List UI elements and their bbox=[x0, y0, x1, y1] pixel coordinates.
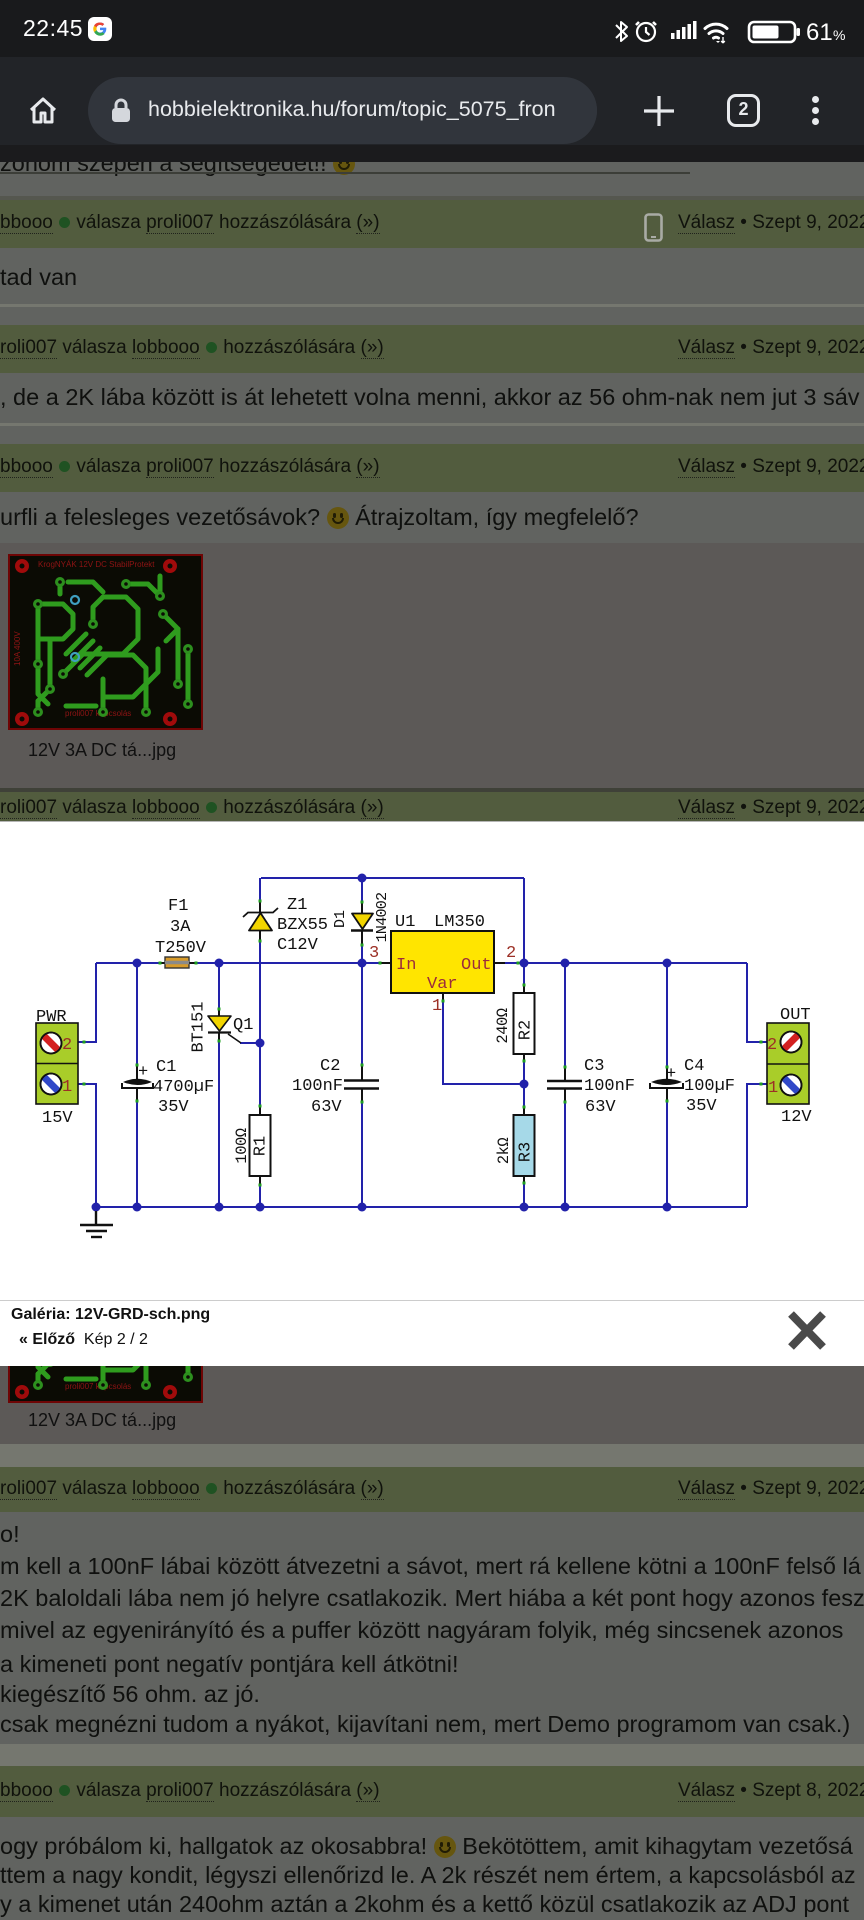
alarm clock bbox=[637, 23, 655, 41]
svg-text:12V: 12V bbox=[781, 1108, 812, 1127]
wire C2 branch bbox=[361, 963, 363, 1207]
corner drill donuts bbox=[15, 559, 29, 573]
svg-text:100µF: 100µF bbox=[684, 1077, 735, 1096]
svg-text:R1: R1 bbox=[251, 1136, 270, 1156]
svg-text:PWR: PWR bbox=[36, 1008, 67, 1027]
status icons right bbox=[610, 16, 850, 46]
lock icon bbox=[110, 97, 132, 124]
header 6 bbox=[0, 1766, 864, 1817]
resistor R1 bbox=[250, 1115, 271, 1176]
capacitor C4 plates (electrolytic) bbox=[650, 1079, 683, 1088]
PCB image bbox=[8, 554, 203, 730]
cyan pads bbox=[71, 596, 79, 604]
svg-text:Z1: Z1 bbox=[287, 896, 307, 915]
wire C1 branch bbox=[136, 963, 138, 1207]
home icon bbox=[23, 91, 63, 131]
connector PWR bbox=[36, 1023, 78, 1104]
svg-text:35V: 35V bbox=[686, 1097, 717, 1116]
svg-text:Q1: Q1 bbox=[233, 1016, 253, 1035]
svg-text:63V: 63V bbox=[311, 1098, 342, 1117]
wire bottom rail bbox=[96, 1206, 747, 1208]
fuse F1 bbox=[165, 957, 189, 968]
resistor R2 bbox=[514, 993, 535, 1054]
svg-text:63V: 63V bbox=[585, 1098, 616, 1117]
header 4 (clipped by lightbox) bbox=[0, 792, 864, 822]
svg-text:BT151: BT151 bbox=[189, 1001, 208, 1052]
wire Q1 branch bbox=[218, 963, 220, 1207]
resistor R3 bbox=[514, 1115, 535, 1176]
svg-text:2: 2 bbox=[506, 944, 516, 963]
svg-text:T250V: T250V bbox=[155, 939, 207, 958]
svg-text:3: 3 bbox=[369, 944, 379, 963]
svg-text:2: 2 bbox=[62, 1036, 72, 1055]
svg-text:%: % bbox=[833, 27, 845, 43]
capacitor C2 plates bbox=[344, 1081, 379, 1089]
svg-text:61: 61 bbox=[806, 19, 833, 46]
labels black bbox=[36, 893, 812, 1165]
svg-text:D1: D1 bbox=[332, 910, 349, 928]
url pill bbox=[88, 77, 597, 144]
svg-text:U1: U1 bbox=[395, 913, 415, 932]
svg-text:1N4002: 1N4002 bbox=[374, 893, 391, 943]
zener Z1 bbox=[243, 908, 278, 931]
signal bars bbox=[671, 33, 675, 39]
wire R2 branch bbox=[523, 963, 525, 1084]
svg-text:R3: R3 bbox=[516, 1142, 535, 1162]
svg-text:KrogNYÁK 12V DC StabilProtekt: KrogNYÁK 12V DC StabilProtekt bbox=[38, 560, 155, 569]
wire PWR pin2 bbox=[78, 963, 96, 1042]
google G app icon bbox=[88, 17, 112, 41]
svg-text:1: 1 bbox=[62, 1078, 72, 1097]
svg-text:4700µF: 4700µF bbox=[153, 1078, 214, 1097]
svg-text:BZX55: BZX55 bbox=[277, 916, 328, 935]
wifi bbox=[705, 24, 727, 28]
op-amp U1 LM350 regulator box bbox=[391, 931, 494, 993]
black pin stubs bbox=[137, 901, 667, 1184]
svg-text:+: + bbox=[666, 1065, 676, 1084]
wire input rail bbox=[96, 962, 380, 964]
close X bbox=[783, 1308, 831, 1353]
wire OUT pin1 bbox=[747, 1084, 767, 1207]
svg-text:Out: Out bbox=[461, 956, 492, 975]
svg-text:F1: F1 bbox=[168, 897, 188, 916]
svg-text:15V: 15V bbox=[42, 1109, 73, 1128]
tab counter bbox=[727, 94, 760, 127]
capacitor C3 plates bbox=[547, 1081, 582, 1089]
svg-text:2: 2 bbox=[767, 1036, 777, 1055]
svg-text:proli007 kapcsolás: proli007 kapcsolás bbox=[65, 709, 131, 718]
svg-text:C2: C2 bbox=[320, 1057, 340, 1076]
svg-text:35V: 35V bbox=[158, 1098, 189, 1117]
wire top rail bbox=[261, 878, 524, 962]
circuit schematic bbox=[0, 822, 864, 1300]
svg-text:C1: C1 bbox=[156, 1058, 176, 1077]
svg-text:C4: C4 bbox=[684, 1057, 704, 1076]
battery bbox=[749, 22, 795, 42]
wire R3 branch bbox=[523, 1084, 525, 1207]
svg-text:In: In bbox=[396, 956, 416, 975]
red pin texts bbox=[62, 944, 778, 1098]
wire OUT pin2 bbox=[747, 963, 767, 1042]
capacitor C1 plates (electrolytic) bbox=[122, 1079, 153, 1088]
bluetooth bbox=[616, 22, 627, 41]
wire D1 branch bbox=[361, 878, 363, 963]
plus bbox=[641, 93, 677, 129]
svg-text:100Ω: 100Ω bbox=[233, 1128, 251, 1163]
connector OUT bbox=[767, 1023, 809, 1104]
thyristor Q1 bbox=[208, 1016, 241, 1043]
wire output rail bbox=[505, 962, 747, 964]
caption bar bbox=[0, 1300, 864, 1301]
svg-text:2kΩ: 2kΩ bbox=[495, 1138, 513, 1165]
svg-text:1: 1 bbox=[768, 1079, 778, 1098]
kebab bbox=[812, 96, 819, 103]
wire PWR pin1 bbox=[78, 1084, 96, 1207]
wire Q1 gate bbox=[240, 1042, 260, 1044]
header 1 bbox=[0, 200, 864, 248]
wire Z1 branch bbox=[259, 878, 261, 1207]
diode D1 bbox=[351, 914, 373, 931]
svg-text:OUT: OUT bbox=[780, 1006, 811, 1025]
svg-text:10A 400V: 10A 400V bbox=[13, 631, 22, 666]
svg-text:+: + bbox=[138, 1063, 148, 1082]
svg-text:C12V: C12V bbox=[277, 936, 319, 955]
green traces bbox=[38, 576, 188, 712]
svg-text:100nF: 100nF bbox=[584, 1077, 635, 1096]
svg-text:C3: C3 bbox=[584, 1057, 604, 1076]
ground bbox=[80, 1211, 113, 1237]
svg-text:Var: Var bbox=[427, 975, 458, 994]
header 2 bbox=[0, 325, 864, 373]
attachment area 1 bbox=[0, 543, 864, 789]
wire Var link bbox=[443, 1000, 524, 1084]
wire C3 branch bbox=[564, 963, 566, 1207]
svg-text:R2: R2 bbox=[516, 1020, 535, 1040]
pin end ticks bbox=[83, 900, 763, 1187]
junction dots bbox=[92, 874, 672, 1212]
svg-text:3A: 3A bbox=[170, 918, 191, 937]
header 3 bbox=[0, 444, 864, 492]
svg-text:1: 1 bbox=[432, 997, 442, 1016]
svg-text:100nF: 100nF bbox=[292, 1077, 343, 1096]
svg-text:240Ω: 240Ω bbox=[494, 1008, 512, 1043]
wire C4 branch bbox=[666, 963, 668, 1207]
pads bbox=[33, 577, 193, 717]
svg-text:LM350: LM350 bbox=[434, 913, 485, 932]
header 5 bbox=[0, 1467, 864, 1512]
PCB image bottom sliver bbox=[8, 1366, 203, 1403]
